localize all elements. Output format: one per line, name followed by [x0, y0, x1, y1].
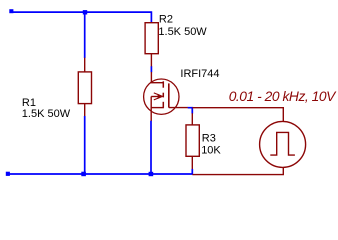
generator V1 top lead: [192, 108, 283, 122]
svg-text:IRFI744: IRFI744: [180, 68, 219, 80]
svg-text:R3: R3: [202, 132, 216, 144]
wire Q1 source to bottom rail: [150, 121, 152, 174]
gate lead: [169, 107, 188, 109]
wire top rail: [11, 11, 151, 13]
svg-text:0.01 - 20 kHz, 10V: 0.01 - 20 kHz, 10V: [229, 89, 337, 104]
body arrow head: [158, 94, 163, 99]
channel top dash: [162, 81, 164, 87]
drain stub: [151, 82, 164, 84]
wire R1 to bottom rail: [84, 116, 86, 174]
junction bottom rail at R1: [81, 172, 86, 177]
generator V1 body: [260, 121, 306, 167]
svg-text:R2: R2: [159, 13, 173, 25]
svg-text:1.5K 50W: 1.5K 50W: [158, 26, 207, 38]
channel middle dash: [162, 93, 164, 98]
transistor Q1 IRFI744: [144, 72, 188, 121]
svg-text:R1: R1: [22, 97, 36, 109]
wire R2 to Q1 drain: [150, 66, 152, 72]
generator pulse waveform: [270, 132, 295, 155]
resistor R1: [78, 58, 91, 116]
junction bottom rail at source: [149, 172, 154, 176]
junction top rail / R1 branch: [83, 10, 87, 14]
drain lead: [150, 72, 152, 83]
channel bottom dash: [162, 102, 164, 108]
resistor R2: [145, 23, 158, 67]
source stub: [151, 107, 164, 109]
resistor R3: [186, 113, 199, 169]
body arrow barbs: [154, 93, 163, 97]
wire top rail corner down to R2: [150, 11, 152, 23]
wire gate to R3 node: [188, 108, 193, 114]
svg-text:10K: 10K: [201, 145, 221, 157]
terminal bottom-left: [6, 172, 10, 176]
wire R3 to bottom rail: [191, 169, 193, 174]
source riser and lead: [150, 97, 152, 122]
generator V1 bottom lead: [192, 167, 283, 174]
wire bottom rail: [8, 173, 193, 175]
wire junction to R1: [84, 12, 86, 58]
svg-text:1.5K 50W: 1.5K 50W: [22, 108, 71, 120]
terminal top-left: [9, 9, 13, 13]
body arrow shaft: [151, 96, 158, 98]
gate bar: [168, 83, 170, 107]
